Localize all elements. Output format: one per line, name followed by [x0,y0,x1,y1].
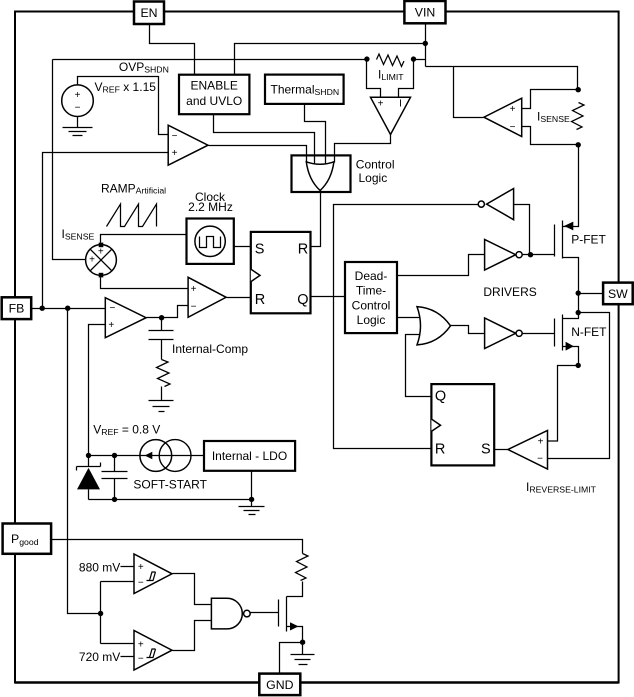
svg-text:Q: Q [297,292,308,308]
svg-text:+: + [191,284,197,295]
svg-text:VIN: VIN [415,6,436,20]
comparator 720mV with hysteresis [134,631,172,671]
svg-text:−: − [537,453,543,464]
transistor P-FET [555,221,607,259]
wire latch2 Q to OR2 bottom input [406,335,432,397]
svg-text:EN: EN [140,6,157,20]
comparator OVP [168,125,208,165]
wire ground node to GND pin [280,643,303,674]
wire Ireverse output to latch2 S [494,449,508,451]
wire N-FET source [563,347,579,366]
pin FB [2,297,32,319]
svg-text:SW: SW [608,287,628,301]
wire SW node to N-FET drain [563,294,579,319]
svg-text:720 mV: 720 mV [79,650,120,664]
wire pull-up resistor to NMOS drain [287,582,303,597]
resistor Rsense [572,103,585,130]
Clock oscillator block [187,219,234,264]
pin VIN [404,1,445,23]
svg-text:FB: FB [9,302,25,316]
pin EN [134,2,164,25]
svg-text:I: I [399,99,402,110]
svg-text:+: + [75,90,81,101]
wire current source to soft-start node [89,455,140,457]
node dot FB-sense [65,306,70,311]
resistor internal comp [157,360,171,387]
wire Isense amp minus input [522,127,579,145]
svg-text:−: − [138,653,144,664]
ground NMOS Pgood [291,643,315,665]
wire inverter1 output to latch2 R [334,205,479,449]
wire Isense amp apex [454,67,484,118]
node dot Ilimit right [411,56,416,61]
node dot Rsense top [576,87,581,92]
svg-text:Internal - LDO: Internal - LDO [212,449,287,463]
wire Ilimit comparator output to control logic [335,135,391,163]
wire 880mV stub [121,566,135,568]
svg-text:+: + [138,639,144,650]
pin GND [259,674,300,696]
svg-text:ENABLE: ENABLE [191,79,238,93]
node dot N-FET source [576,363,581,368]
wire comp node to PWM minus [162,306,189,318]
svg-text:Control: Control [356,158,395,172]
wire FB node to OVP plus [43,153,169,309]
wire PWM comparator output to latch1 R [227,297,251,299]
wire Pgood to pull-up resistor [52,540,303,554]
or-gate control logic [306,162,334,191]
ground below LDO [239,507,265,515]
svg-text:−: − [75,103,81,114]
wire inverter3 output to N-FET gate [523,333,555,335]
wire sense resistor to P-FET source [563,145,579,227]
wire FB to error amp minus [32,308,106,310]
wire multiplier bottom to PWM plus [101,278,189,289]
svg-text:−: − [191,302,197,313]
ENABLE and UVLO block [179,75,249,115]
svg-text:R: R [298,241,308,257]
wire soft-start cap stems [114,456,116,500]
svg-text:ISENSE: ISENSE [537,109,570,124]
svg-text:−: − [172,131,178,142]
wire multiplier top to clock [101,235,187,243]
wire dead-time to inverter2 input [397,255,485,276]
svg-text:VREF x 1.15: VREF x 1.15 [95,80,157,95]
inverter P-FET driver [485,240,523,271]
svg-text:IREVERSE-LIMIT: IREVERSE-LIMIT [526,480,597,495]
current source soft-start [140,440,191,472]
wire SW node to Ireverse minus input [548,313,610,459]
node dot comp [159,315,164,320]
svg-text:+: + [98,247,104,258]
transistor NMOS Pgood [279,597,299,632]
node dot soft-start cap [112,453,117,458]
node dot rail LDO [249,497,254,502]
wire SW node to SW pin [579,293,604,295]
op-amp Isense [484,98,522,136]
wire Isense rail to multiplier left input [53,60,86,260]
diode soft-start [77,463,101,490]
latch2 clock input triangle [431,419,440,431]
node dot soft-start diode [86,453,91,458]
wire comp880 output to NAND [173,574,212,605]
or-gate driver logic [417,307,451,345]
svg-text:Dead-: Dead- [355,269,388,283]
svg-text:+: + [510,104,516,115]
wire LDO to current source [191,455,205,457]
ground below Vref source [63,128,93,136]
node dot N-FET drain [576,310,581,315]
wire OR2 output to inverter3 [451,326,485,334]
svg-text:GND: GND [266,678,293,692]
wire control logic output to latch1 R [311,190,321,247]
svg-text:Logic: Logic [357,313,386,327]
wire clock to latch1 S [234,246,251,248]
svg-text:Logic: Logic [359,171,388,185]
ramp sawtooth waveform [107,204,157,227]
wire thermal output to control logic [305,104,326,166]
resistor pull-up Pgood [296,554,309,581]
svg-text:DRIVERS: DRIVERS [483,285,536,299]
wire ENABLE output to control logic [214,115,315,166]
svg-text:and UVLO: and UVLO [186,94,242,108]
wire Ilimit comparator left input [367,60,381,98]
transistor N-FET [555,315,608,351]
nand-gate Pgood [211,598,250,629]
svg-text:S: S [481,442,491,458]
ground internal comp [149,387,174,412]
capacitor internal comp [149,318,174,360]
node dot rail cap [112,497,117,502]
svg-text:N-FET: N-FET [571,325,607,339]
svg-text:−: − [138,577,144,588]
wire EN to ENABLE/UVLO [150,25,195,75]
node dot SW [576,290,581,295]
wire LDO ground stem [251,471,253,507]
wire soft-start bottom rail [89,499,252,501]
wire diode stem [88,456,90,500]
svg-text:+: + [378,99,384,110]
svg-text:Internal-Comp: Internal-Comp [172,342,248,356]
Control Logic box U-ctl [292,155,351,192]
wire 720mV stub [121,656,135,658]
svg-text:VREF = 0.8 V: VREF = 0.8 V [93,423,160,438]
svg-text:Q: Q [435,389,446,405]
wire NAND output to NMOS gate [251,612,279,614]
svg-text:+: + [538,436,544,447]
Thermal shutdown block [265,75,344,104]
node dot comparator chain [98,611,103,616]
op-amp error amplifier [105,298,146,338]
resistor Ilimit [377,54,405,67]
wire inverter2 output to P-FET gate [523,254,555,256]
node dot Rsense bottom [576,142,581,147]
node dot Ilimit left [364,56,369,61]
pin Pgood [3,524,52,554]
latch1 clock input triangle [251,269,260,282]
wire VIN node to sense resistor top [426,67,578,90]
wire Isense amp plus input [522,90,579,109]
wire N-FET source to Ireverse plus input [548,366,579,442]
comparator PWM [188,277,226,317]
wire comp720 plus input [101,643,135,645]
svg-text:ISENSE: ISENSE [62,227,95,242]
node dot P-FET gate [528,252,533,257]
wire P-FET drain to SW node [563,258,579,294]
Internal - LDO block [204,441,295,471]
wire comparator input chain [100,582,102,644]
svg-text:SOFT-START: SOFT-START [133,477,207,491]
comparator 880mV with hysteresis [134,554,172,594]
wire OVP output to control logic [209,146,307,163]
wire NMOS source to ground node [287,627,303,643]
SR latch U1 [251,232,311,313]
wire comp720 output to NAND [173,621,212,651]
node dot NMOS source ground [300,640,305,645]
wire Isense rail at y59 [53,59,426,61]
node dot FB-OVP [40,306,45,311]
svg-text:R: R [255,292,265,308]
svg-text:ILIMIT: ILIMIT [378,68,404,83]
wire latch1 Q to dead-time [311,296,345,298]
pin SW [603,283,633,305]
svg-text:+: + [138,562,144,573]
comparator Ireverse-limit [508,431,548,470]
svg-text:−: − [510,122,516,133]
svg-text:+: + [172,148,178,159]
wire VIN node to ENABLE/UVLO [235,44,426,75]
wire VIN down to node [425,24,427,67]
svg-text:+: + [89,254,95,265]
svg-text:P-FET: P-FET [571,233,606,247]
comparator Ilimit [371,97,411,134]
svg-text:Time-: Time- [356,284,386,298]
node dot VIN junction [423,41,428,46]
svg-text:−: − [109,303,115,314]
multiplier summing node [86,243,117,278]
svg-text:RAMPArtificial: RAMPArtificial [101,181,166,195]
inverter high-side feedback [478,189,513,220]
svg-text:+: + [108,320,114,331]
svg-text:2.2 MHz: 2.2 MHz [188,200,233,214]
svg-text:OVPSHDN: OVPSHDN [119,60,169,75]
voltage source Vref x 1.15 [62,85,94,128]
inverter N-FET driver [485,318,523,349]
wire comp880 minus input [101,581,135,583]
svg-text:880 mV: 880 mV [79,560,120,574]
wire error amp output node [147,317,162,319]
capacitor soft-start [102,472,128,479]
wire dead-time to OR2 top input [397,317,423,319]
wire FB sense down to comparators [68,309,101,614]
wire error amp plus to soft-start node [89,325,106,456]
wire Ilimit comparator right input [399,60,414,98]
svg-text:S: S [255,241,265,257]
wire Vref source to OVP minus [78,77,169,135]
wire inverter1 input tap [514,205,530,255]
Dead-Time-Control Logic block [345,262,397,333]
SR latch U2 [431,384,494,465]
svg-text:Control: Control [352,298,391,312]
clock symbol circle [195,226,225,256]
svg-text:R: R [435,442,445,458]
